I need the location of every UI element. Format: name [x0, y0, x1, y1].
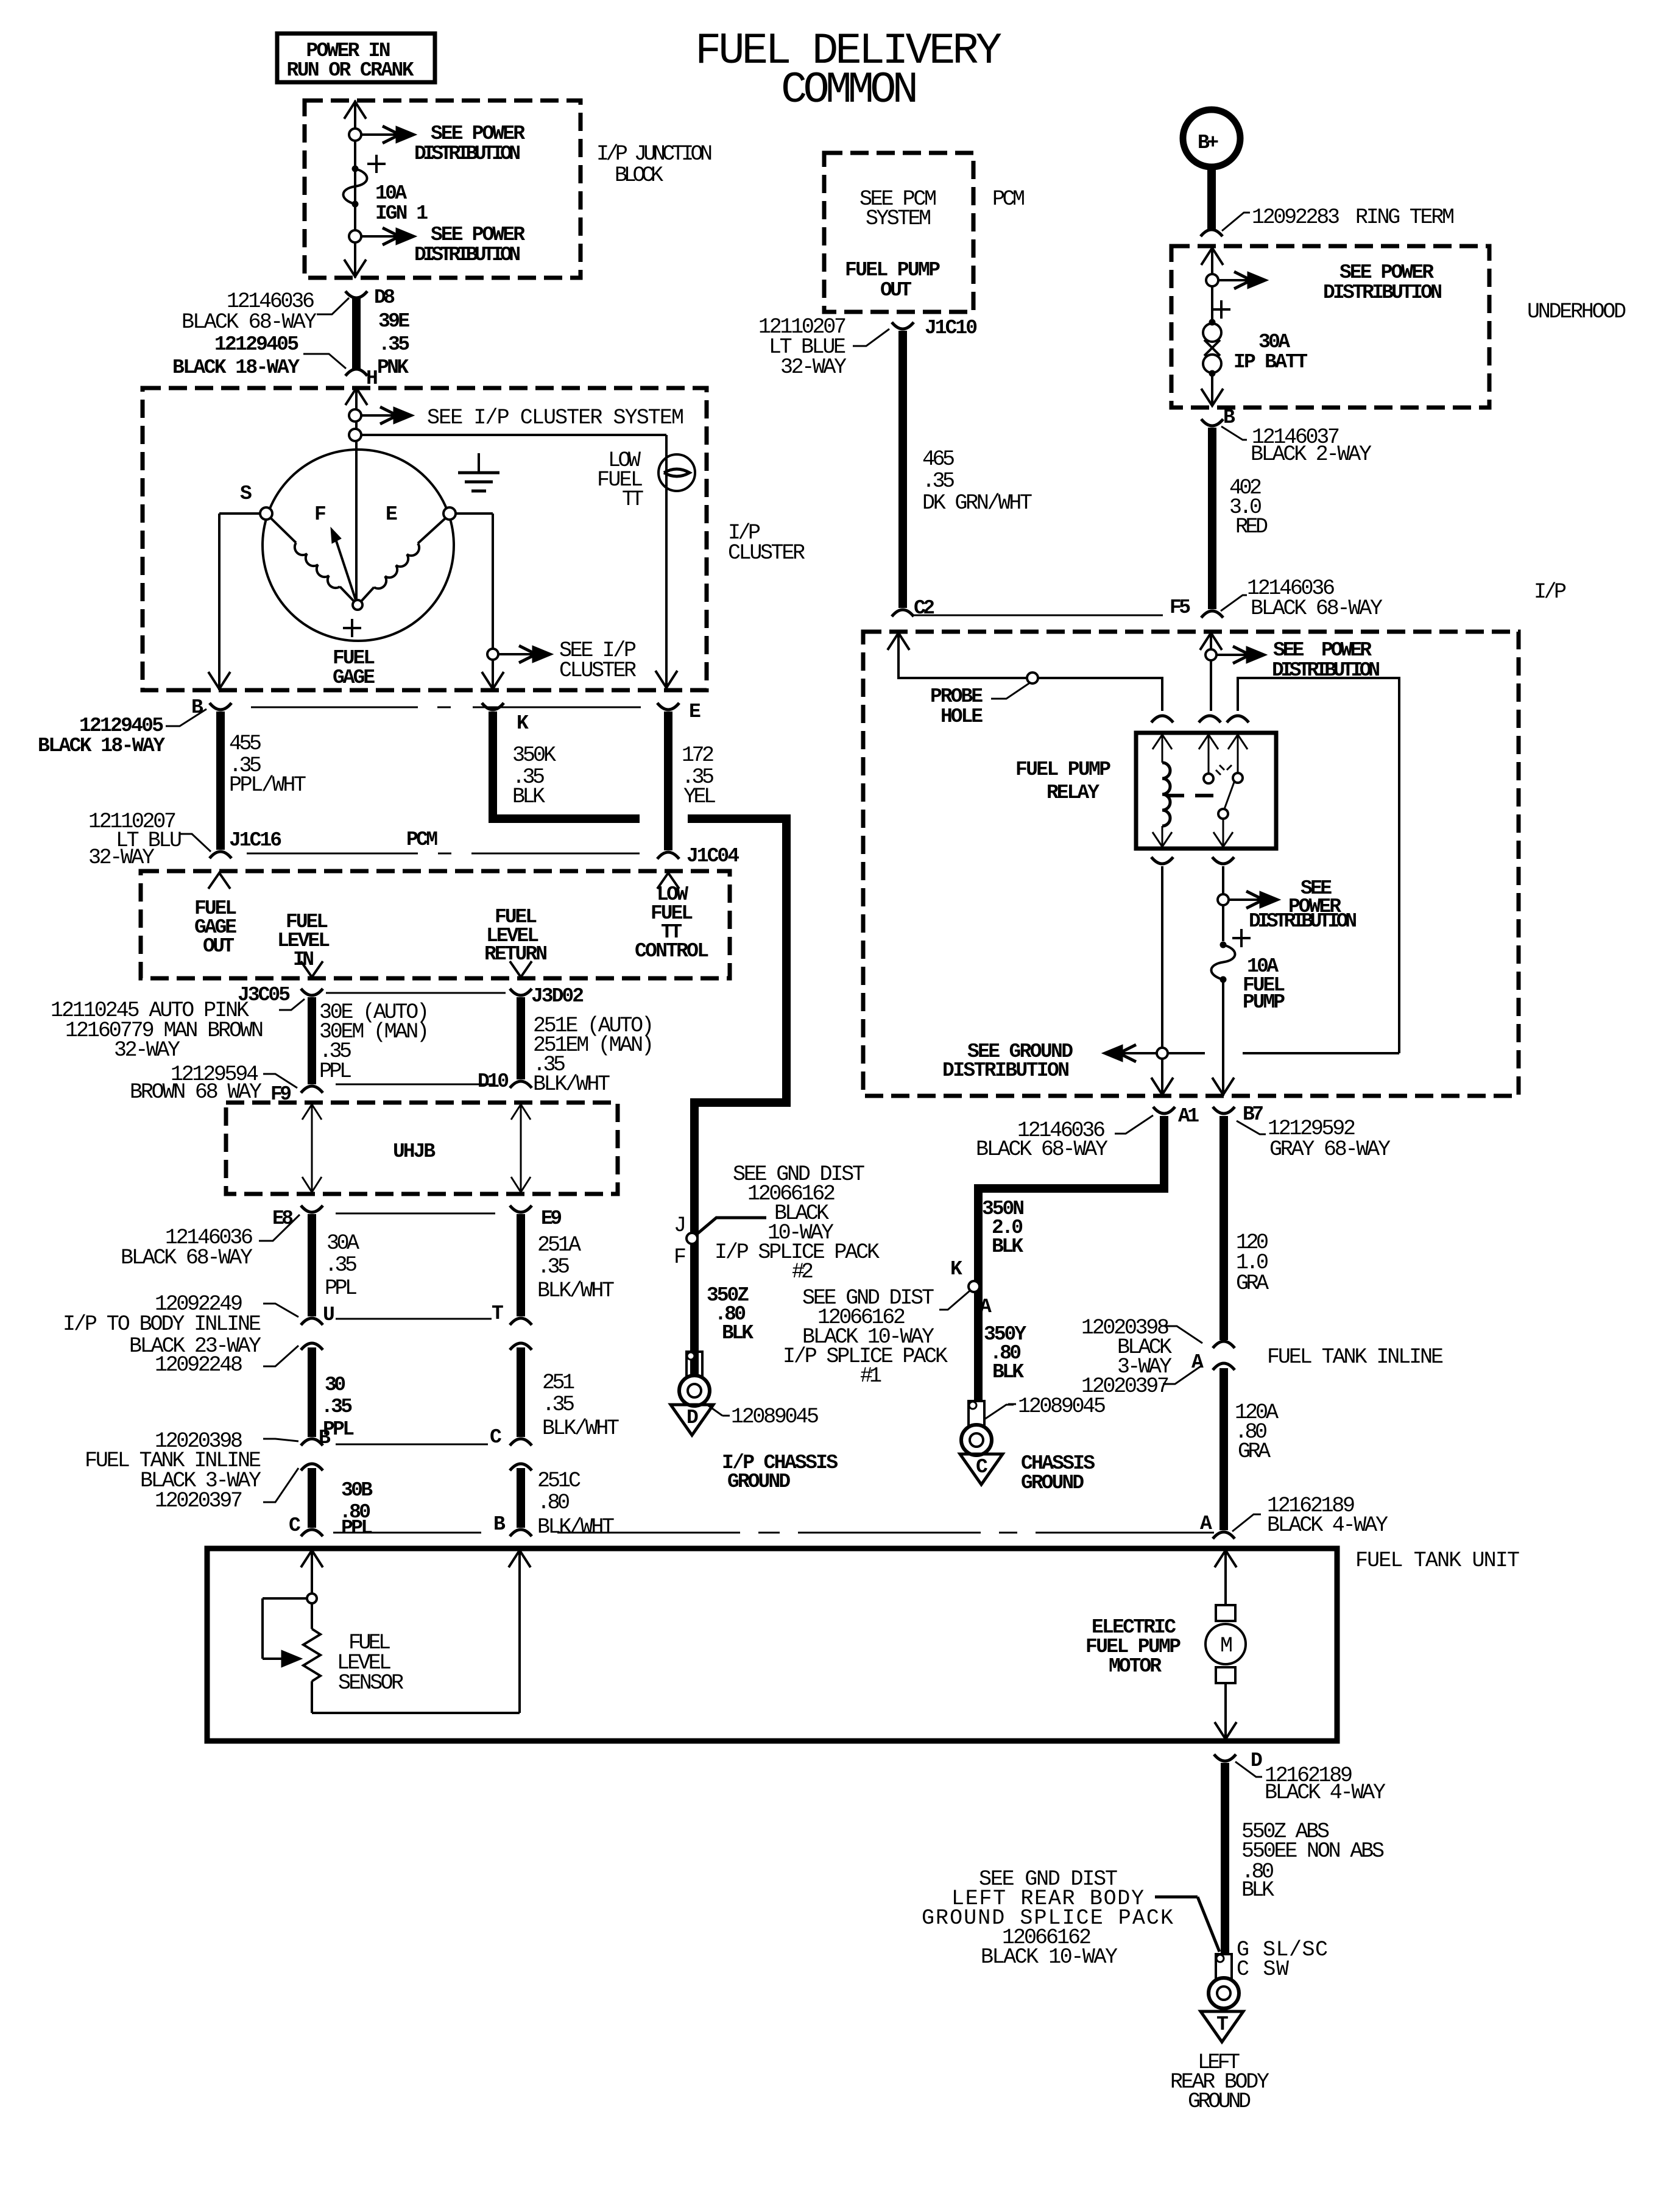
wire 251C .80 BLK/WHT	[521, 1468, 615, 1539]
svg-text:12020397: 12020397	[1081, 1374, 1170, 1399]
svg-text:12089045: 12089045	[731, 1405, 819, 1429]
svg-text:E: E	[689, 701, 701, 723]
wire 350Z .80 BLK	[707, 1284, 754, 1344]
svg-text:BLACK 68-WAY: BLACK 68-WAY	[121, 1246, 253, 1270]
wire 30A .35 PPL	[312, 1214, 359, 1316]
svg-text:BLK/WHT: BLK/WHT	[542, 1416, 619, 1441]
svg-text:K: K	[950, 1258, 962, 1280]
svg-text:IGN 1: IGN 1	[375, 202, 428, 225]
svg-text:.35: .35	[378, 333, 410, 356]
connector row line E8-E9	[336, 1213, 495, 1215]
svg-text:BLK: BLK	[992, 1361, 1024, 1383]
svg-text:.35: .35	[922, 469, 955, 493]
svg-text:C: C	[490, 1426, 502, 1449]
svg-text:BLK/WHT: BLK/WHT	[537, 1279, 615, 1303]
gauge terminal S	[240, 482, 272, 520]
connector J3D02	[510, 985, 584, 1008]
wire 251E/251EM .35 BLK/WHT	[521, 997, 654, 1096]
wire 350N 2.0 BLK	[978, 1116, 1164, 1402]
svg-text:.35: .35	[321, 1396, 353, 1418]
node circle to power distribution I/P	[1205, 649, 1216, 660]
battery terminal B+	[1183, 110, 1240, 167]
svg-text:M: M	[1220, 1634, 1233, 1658]
svg-text:PPL/WHT: PPL/WHT	[229, 773, 306, 797]
node circle to power distribution (upper)	[349, 129, 361, 141]
relay terminal arc contact	[1227, 716, 1249, 722]
PCM exit caret fuel level return	[510, 961, 532, 977]
fuel tank inline connector A 12020398 BLACK 3-WAY 12020397	[1081, 1316, 1444, 1399]
wire C2 feed to relay coil	[888, 632, 1162, 711]
svg-text:SEE POWER: SEE POWER	[1339, 261, 1434, 284]
node circle to low fuel lamp	[349, 429, 361, 441]
chassis ground triangle C	[960, 1452, 1095, 1494]
probe hole	[930, 673, 1038, 728]
svg-text:J3D02: J3D02	[531, 985, 584, 1008]
svg-text:BLK: BLK	[512, 785, 545, 809]
connector K	[482, 703, 529, 735]
svg-text:RETURN: RETURN	[484, 943, 548, 966]
svg-text:251C: 251C	[537, 1469, 581, 1493]
wire 455 .35 PPL/WHT	[221, 711, 306, 850]
svg-text:BLACK 18-WAY: BLACK 18-WAY	[38, 735, 165, 757]
fuel pump relay box	[1015, 733, 1276, 849]
svg-text:GRAY 68-WAY: GRAY 68-WAY	[1269, 1137, 1391, 1162]
svg-text:J1C04: J1C04	[686, 845, 739, 867]
connector B at fuel tank unit	[493, 1513, 532, 1536]
UHJB box (dashed)	[226, 1103, 618, 1194]
relay actuation dashed link	[1166, 794, 1215, 797]
gauge pivot	[353, 600, 362, 610]
svg-text:.35: .35	[537, 1255, 570, 1279]
connector row line J1C16-PCM-J1C04	[247, 828, 640, 853]
lamp LOW FUEL TT	[597, 448, 695, 512]
svg-text:12129405: 12129405	[214, 333, 299, 356]
fuel level sensor wiring	[263, 1548, 531, 1713]
wire 251A .35 BLK/WHT	[521, 1214, 615, 1316]
connector F9 12129594 BROWN 68 WAY	[130, 1062, 323, 1106]
label FUEL LEVEL SENSOR	[337, 1631, 404, 1695]
label SEE GND DIST LEFT REAR BODY GROUND SPLICE PACK 12066162 BLACK 10-WAY	[922, 1867, 1173, 1969]
connector C at fuel tank unit	[289, 1514, 323, 1537]
svg-text:RUN OR CRANK: RUN OR CRANK	[287, 59, 414, 82]
electric fuel pump motor M	[1205, 1548, 1246, 1741]
svg-text:IP BATT: IP BATT	[1234, 351, 1308, 373]
svg-text:12092248: 12092248	[155, 1353, 243, 1377]
svg-text:S: S	[240, 482, 252, 505]
svg-text:YEL: YEL	[683, 785, 716, 809]
connector D 12162189 BLACK 4-WAY	[1214, 1749, 1386, 1805]
gauge left coil	[270, 518, 354, 601]
svg-text:DK GRN/WHT: DK GRN/WHT	[922, 491, 1032, 515]
inline mate below T	[510, 1343, 532, 1350]
svg-text:251A: 251A	[537, 1233, 581, 1257]
svg-text:DISTRIBUTION: DISTRIBUTION	[1249, 910, 1357, 933]
svg-text:A1: A1	[1178, 1105, 1199, 1128]
inline mate below U	[301, 1343, 323, 1350]
wire F5 feed to relay switch	[1200, 632, 1222, 711]
svg-text:32-WAY: 32-WAY	[780, 355, 847, 380]
label SEE GND DIST 12066162 BLACK 10-WAY I/P SPLICE PACK #1	[783, 1286, 948, 1388]
power source box POWER IN RUN OR CRANK	[277, 34, 435, 82]
UHJB left through-wire	[302, 1104, 322, 1193]
wire 30 .35 PPL	[312, 1347, 355, 1441]
splice K to ground splice pack 1	[939, 1258, 992, 1318]
svg-text:OUT: OUT	[203, 935, 235, 958]
relay coil	[1152, 735, 1172, 847]
connector E9	[510, 1206, 562, 1230]
gauge right coil	[361, 518, 446, 601]
connector row line C2-F5	[912, 615, 1163, 616]
svg-text:SEE POWER: SEE POWER	[1273, 639, 1372, 662]
svg-text:12020397: 12020397	[155, 1489, 243, 1513]
svg-text:12092283: 12092283	[1252, 205, 1340, 230]
svg-text:OUT: OUT	[880, 279, 912, 302]
svg-text:12129405: 12129405	[79, 715, 164, 737]
svg-text:BLOCK: BLOCK	[615, 163, 663, 188]
svg-text:PPL: PPL	[341, 1517, 373, 1539]
leader to ground splice	[1155, 1897, 1219, 1952]
svg-text:PPL: PPL	[319, 1059, 352, 1084]
ring terminal 12089045 left	[679, 1352, 819, 1429]
svg-text:RING TERM: RING TERM	[1355, 205, 1455, 230]
svg-text:K: K	[517, 712, 529, 735]
wire relay contact loop	[1238, 678, 1399, 1053]
connector row line J3C05-J3D02	[326, 992, 506, 994]
wire ign feed in junction block	[344, 101, 366, 278]
svg-text:E8: E8	[272, 1207, 294, 1230]
svg-text:C SW: C SW	[1237, 1957, 1289, 1982]
svg-text:32-WAY: 32-WAY	[114, 1038, 180, 1062]
connector B 12146037 BLACK 2-WAY	[1201, 406, 1372, 467]
svg-text:IN: IN	[293, 948, 314, 971]
svg-text:BLK: BLK	[722, 1322, 754, 1344]
svg-text:GROUND: GROUND	[1021, 1472, 1084, 1494]
svg-text:.80: .80	[537, 1491, 570, 1515]
svg-text:GRA: GRA	[1236, 1271, 1269, 1296]
svg-text:455: 455	[229, 732, 262, 756]
svg-text:465: 465	[922, 447, 955, 471]
connector E	[657, 701, 701, 723]
svg-text:PCM: PCM	[992, 187, 1025, 211]
svg-text:C: C	[976, 1456, 988, 1478]
svg-text:A: A	[1200, 1513, 1212, 1535]
svg-text:J1C16: J1C16	[229, 829, 282, 852]
label FUEL GAGE OUT	[194, 897, 237, 958]
PCM exit caret fuel level in	[301, 961, 323, 977]
svg-text:UNDERHOOD: UNDERHOOD	[1527, 300, 1626, 324]
svg-text:CLUSTER: CLUSTER	[728, 541, 805, 565]
wire relay switch to fuse	[1222, 866, 1224, 894]
svg-text:BLACK 2-WAY: BLACK 2-WAY	[1251, 442, 1372, 467]
node circle ground distribution	[1157, 1048, 1168, 1059]
label ELECTRIC FUEL PUMP MOTOR	[1085, 1616, 1181, 1678]
svg-text:PCM: PCM	[406, 828, 438, 851]
svg-text:J: J	[674, 1213, 686, 1238]
fuel gage circle	[263, 450, 454, 641]
wire 30E/30EM .35 PPL	[312, 997, 429, 1084]
svg-text:B: B	[1223, 406, 1235, 429]
svg-text:BLK: BLK	[992, 1235, 1023, 1258]
ring terminal 12089045 right	[961, 1394, 1106, 1455]
connector row line U-T	[336, 1318, 492, 1320]
label FUEL LEVEL IN	[277, 911, 330, 971]
wire to low fuel tell-tale	[361, 435, 677, 689]
svg-text:E: E	[386, 503, 398, 526]
svg-text:.35: .35	[542, 1393, 575, 1417]
gauge needle	[331, 528, 356, 602]
svg-text:F: F	[674, 1245, 686, 1269]
connector F5	[1170, 576, 1383, 621]
svg-text:BLACK 4-WAY: BLACK 4-WAY	[1267, 1513, 1388, 1537]
svg-text:D: D	[686, 1407, 699, 1429]
wire 251 .35 BLK/WHT	[521, 1347, 619, 1441]
svg-text:CONTROL: CONTROL	[635, 940, 709, 962]
I/P chassis ground triangle D	[671, 1405, 838, 1493]
svg-text:TT: TT	[622, 487, 644, 512]
label LOW FUEL TT CONTROL	[635, 883, 709, 962]
svg-text:F5: F5	[1170, 596, 1191, 619]
svg-text:DISTRIBUTION: DISTRIBUTION	[414, 143, 521, 165]
fuel tank unit box	[207, 1548, 1520, 1741]
label I/P JUNCTION BLOCK	[596, 142, 713, 188]
svg-text:RELAY: RELAY	[1046, 782, 1099, 804]
label SEE GND DIST 12066162 BLACK 10-WAY I/P SPLICE PACK #2	[715, 1162, 880, 1284]
arrow SEE GROUND DISTRIBUTION	[942, 1040, 1399, 1082]
connector D10	[478, 1070, 532, 1093]
wire 350K .35 BLK	[493, 711, 786, 1402]
svg-text:30B: 30B	[341, 1479, 373, 1502]
node circle to power distribution fuse	[1218, 894, 1229, 905]
svg-text:PUMP: PUMP	[1243, 991, 1285, 1014]
arrow SEE POWER DISTRIBUTION (lower)	[361, 224, 525, 266]
label G SL/SC C SW	[1237, 1938, 1328, 1982]
label SEE PCM SYSTEM	[859, 187, 937, 231]
connector J1C10 12110207 LT BLUE 32-WAY	[758, 315, 978, 380]
connector A1 12146036 BLACK 68-WAY	[976, 1105, 1199, 1162]
svg-text:DISTRIBUTION: DISTRIBUTION	[414, 244, 521, 266]
connector T	[492, 1302, 532, 1325]
wire 120A .80 GRA	[1224, 1368, 1279, 1530]
connector U 12092249 I/P TO BODY INLINE BLACK 23-WAY 12092248	[63, 1292, 335, 1377]
connector row line F9-D10	[336, 1084, 495, 1086]
svg-text:COMMON: COMMON	[781, 65, 919, 115]
svg-text:BLACK 68-WAY: BLACK 68-WAY	[182, 310, 317, 334]
svg-text:BLK/WHT: BLK/WHT	[533, 1072, 610, 1096]
svg-text:GROUND: GROUND	[1188, 2089, 1251, 2114]
fuse 10A IGN 1	[344, 155, 429, 225]
svg-text:DISTRIBUTION: DISTRIBUTION	[1323, 281, 1442, 304]
I/P junction block box (dashed)	[305, 101, 581, 278]
svg-text:FUEL PUMP: FUEL PUMP	[1015, 758, 1111, 781]
svg-text:GAGE: GAGE	[333, 666, 375, 689]
svg-text:UHJB: UHJB	[393, 1140, 436, 1163]
connector C2	[892, 597, 935, 620]
svg-text:PPL: PPL	[325, 1276, 358, 1301]
wire H into cluster	[345, 387, 367, 602]
connector E8 12146036 BLACK 68-WAY	[121, 1206, 323, 1270]
svg-text:BLACK 18-WAY: BLACK 18-WAY	[172, 356, 300, 379]
connector C inline	[490, 1426, 532, 1449]
svg-text:251: 251	[542, 1371, 575, 1395]
inline mate below C	[510, 1464, 532, 1470]
arrow SEE POWER DISTRIBUTION (upper)	[361, 122, 525, 165]
wire 550Z/550EE .80 BLK	[1225, 1763, 1385, 1953]
label I/P	[1534, 580, 1567, 604]
svg-text:A: A	[979, 1296, 992, 1318]
svg-text:GRA: GRA	[1238, 1439, 1271, 1464]
left rear body ground triangle T	[1170, 2011, 1269, 2114]
svg-text:30A: 30A	[1258, 331, 1290, 353]
svg-text:D10: D10	[478, 1070, 509, 1093]
ring terminal 12092283 RING TERM	[1201, 205, 1455, 236]
wire S terminal to connector B	[208, 514, 260, 690]
svg-text:J1C10: J1C10	[925, 317, 978, 339]
PCM entry caret fuel gage out	[208, 873, 230, 889]
svg-text:.35: .35	[325, 1253, 358, 1277]
inline mate below B	[301, 1464, 323, 1470]
I/P cluster box (dashed)	[143, 388, 707, 690]
connector D8 12146036 BLACK 68-WAY	[182, 286, 395, 334]
gauge polarity plus	[343, 619, 361, 637]
fuse 10A FUEL PUMP	[1212, 905, 1286, 1096]
gauge terminal E side	[443, 507, 456, 520]
arrow SEE POWER DISTRIBUTION I/P	[1217, 639, 1380, 682]
wire B+ to ring term	[1207, 167, 1216, 229]
I/P box (dashed)	[863, 632, 1519, 1096]
connector J3C05 12110245 AUTO PINK 12160779 MAN BROWN 32-WAY	[51, 984, 323, 1062]
svg-text:U: U	[323, 1304, 335, 1326]
relay switch	[1199, 735, 1248, 847]
svg-text:I/P JUNCTION: I/P JUNCTION	[596, 142, 713, 166]
svg-text:D8: D8	[374, 286, 395, 309]
connector J1C16 12110207 LT BLU 32-WAY	[88, 810, 282, 870]
svg-text:C: C	[289, 1514, 301, 1537]
svg-text:39E: 39E	[378, 310, 410, 333]
relay output arc coil side	[1151, 857, 1173, 864]
node circle to power distribution underhood	[1206, 274, 1218, 286]
svg-text:E9: E9	[541, 1207, 562, 1230]
wire batt feed in underhood box	[1201, 246, 1223, 322]
wire 39E .35 PNK	[356, 298, 410, 379]
arrow SEE I/P CLUSTER	[498, 638, 637, 683]
svg-text:DISTRIBUTION: DISTRIBUTION	[942, 1059, 1070, 1082]
svg-text:SEE POWER: SEE POWER	[431, 224, 525, 246]
svg-text:GROUND: GROUND	[727, 1470, 791, 1493]
svg-text:B+: B+	[1198, 132, 1219, 154]
label FUEL PUMP OUT	[845, 259, 941, 302]
connector H 12129405 BLACK 18-WAY	[172, 333, 378, 390]
svg-text:RED: RED	[1235, 515, 1268, 539]
svg-text:FUEL PUMP: FUEL PUMP	[845, 259, 941, 281]
svg-text:SENSOR: SENSOR	[338, 1671, 404, 1695]
relay output arc switch side	[1212, 857, 1234, 864]
relay terminal arc coil	[1151, 716, 1173, 722]
svg-text:30: 30	[325, 1374, 346, 1396]
connector row line B-C	[336, 1444, 488, 1446]
relay terminal arc common	[1199, 716, 1221, 722]
splice J F to splice pack 2	[674, 1213, 766, 1269]
svg-text:PNK: PNK	[377, 356, 409, 379]
svg-text:BLACK 68-WAY: BLACK 68-WAY	[976, 1137, 1108, 1162]
svg-text:B: B	[493, 1513, 506, 1536]
svg-text:BLACK 10-WAY: BLACK 10-WAY	[981, 1945, 1118, 1969]
svg-text:I/P TO BODY INLINE: I/P TO BODY INLINE	[63, 1312, 261, 1336]
svg-text:10A: 10A	[375, 182, 407, 205]
wire E terminal down	[456, 514, 504, 690]
svg-text:MOTOR: MOTOR	[1109, 1655, 1162, 1678]
svg-text:350K: 350K	[512, 743, 556, 768]
svg-text:32-WAY: 32-WAY	[88, 846, 155, 870]
label FUEL GAGE	[333, 647, 375, 689]
connector B fuel tank inline 12020398 BLACK 3-WAY 12020397	[85, 1427, 331, 1513]
UHJB right through-wire	[511, 1104, 531, 1193]
PCM box (dashed)	[141, 871, 730, 978]
svg-text:172: 172	[682, 743, 715, 768]
svg-text:BLACK 68-WAY: BLACK 68-WAY	[1251, 596, 1383, 621]
svg-text:A: A	[1191, 1351, 1204, 1374]
svg-text:T: T	[1216, 2013, 1229, 2036]
connector J1C04	[657, 845, 739, 867]
svg-text:B7: B7	[1243, 1103, 1264, 1126]
svg-text:#2: #2	[792, 1260, 814, 1284]
node circle to power distribution (lower)	[349, 230, 361, 242]
arrow SEE POWER DISTRIBUTION underhood	[1218, 261, 1442, 304]
svg-text:SEE POWER: SEE POWER	[431, 122, 525, 145]
arrow SEE I/P CLUSTER SYSTEM	[361, 406, 684, 430]
svg-text:BLACK 4-WAY: BLACK 4-WAY	[1265, 1781, 1386, 1805]
connector row line B-K-E	[251, 707, 641, 708]
wire 30B .80 PPL	[312, 1468, 373, 1539]
wire 465 .35 DK GRN/WHT	[903, 331, 1032, 608]
circuit breaker 30A IP BATT	[1201, 300, 1308, 406]
svg-text:T: T	[492, 1302, 504, 1325]
PCM entry caret low fuel tt	[657, 873, 679, 889]
ground symbol in cluster	[458, 453, 499, 491]
UNDERHOOD box (dashed)	[1171, 246, 1626, 408]
svg-text:#1: #1	[860, 1364, 882, 1388]
svg-text:B: B	[319, 1427, 331, 1449]
svg-text:CLUSTER: CLUSTER	[559, 658, 637, 683]
label FUEL LEVEL RETURN	[484, 906, 548, 966]
svg-text:D: D	[1251, 1749, 1263, 1772]
svg-text:FUEL TANK INLINE: FUEL TANK INLINE	[1267, 1345, 1444, 1369]
svg-text:PROBE: PROBE	[930, 685, 983, 708]
node circle to see I/P cluster	[487, 649, 498, 660]
connector B 12129405 BLACK 18-WAY	[38, 696, 231, 757]
label I/P CLUSTER	[728, 521, 805, 565]
svg-text:SYSTEM: SYSTEM	[866, 207, 931, 231]
svg-text:30A: 30A	[326, 1231, 359, 1255]
connector A at fuel tank unit 12162189 BLACK 4-WAY	[1200, 1494, 1388, 1539]
svg-text:SEE I/P CLUSTER SYSTEM: SEE I/P CLUSTER SYSTEM	[427, 406, 684, 430]
svg-text:BLK/WHT: BLK/WHT	[537, 1515, 615, 1539]
wire relay coil to ground distribution	[1151, 866, 1173, 1096]
title FUEL DELIVERY COMMON	[695, 26, 1002, 115]
svg-text:HOLE: HOLE	[941, 705, 983, 728]
wire 350Y .80 BLK	[984, 1323, 1026, 1383]
wire 172 .35 YEL	[668, 711, 716, 850]
fuel tank unit row line	[333, 1532, 1214, 1534]
wire 402 3.0 RED	[1212, 428, 1268, 609]
svg-text:I/P: I/P	[1534, 580, 1567, 604]
PCM system box (dashed)	[824, 153, 1025, 312]
ring terminal bottom	[1209, 1954, 1239, 2008]
node circle to I/P cluster system	[349, 409, 361, 422]
arrow SEE POWER DISTRIBUTION fuse	[1229, 877, 1357, 933]
connector B7 12129592 GRAY 68-WAY	[1213, 1103, 1391, 1162]
svg-text:F: F	[314, 503, 326, 526]
svg-text:FUEL TANK UNIT: FUEL TANK UNIT	[1355, 1548, 1520, 1573]
